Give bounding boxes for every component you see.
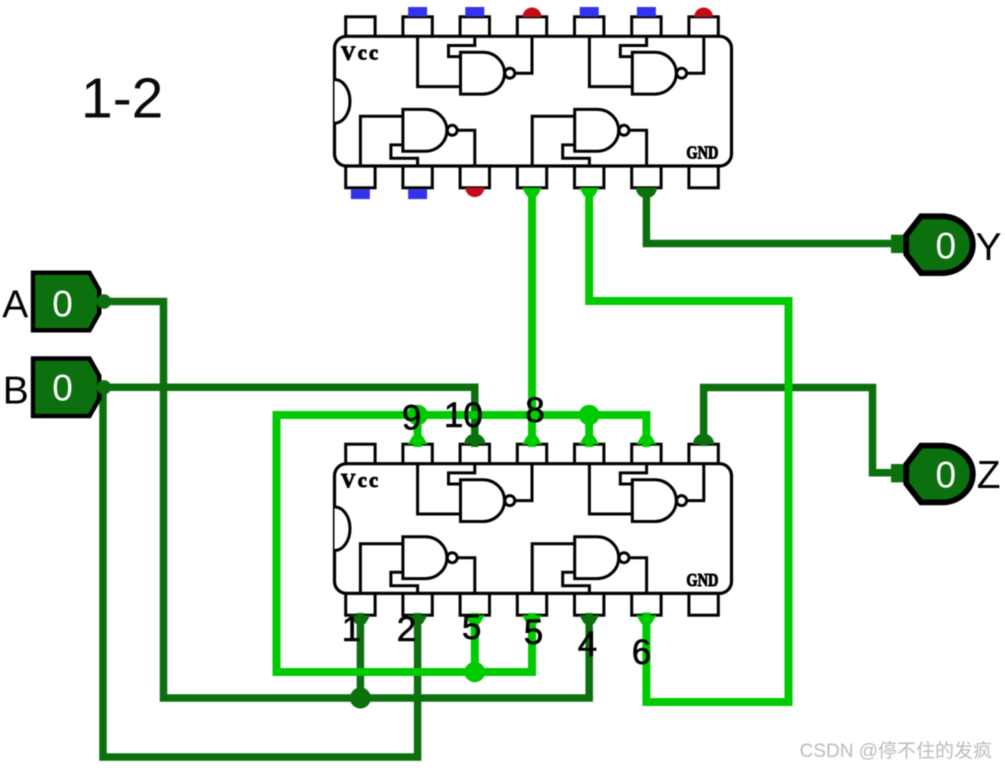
svg-text:0: 0 [936,455,957,496]
svg-text:9: 9 [402,399,421,438]
svg-text:0: 0 [936,225,957,266]
svg-text:0: 0 [52,367,73,408]
svg-text:4: 4 [578,625,597,664]
svg-text:10: 10 [444,396,483,435]
svg-text:1: 1 [342,610,361,649]
svg-text:B: B [3,369,29,412]
svg-text:8: 8 [525,391,544,430]
svg-text:0: 0 [52,284,73,325]
svg-text:A: A [2,284,28,327]
svg-text:Y: Y [975,226,1001,269]
svg-text:2: 2 [397,610,416,649]
svg-text:5: 5 [524,613,543,652]
svg-text:1-2: 1-2 [81,67,163,131]
svg-text:CSDN @停不住的发疯: CSDN @停不住的发疯 [800,740,992,762]
svg-text:Z: Z [977,454,1001,497]
svg-text:5: 5 [462,608,481,647]
svg-text:6: 6 [632,633,651,672]
